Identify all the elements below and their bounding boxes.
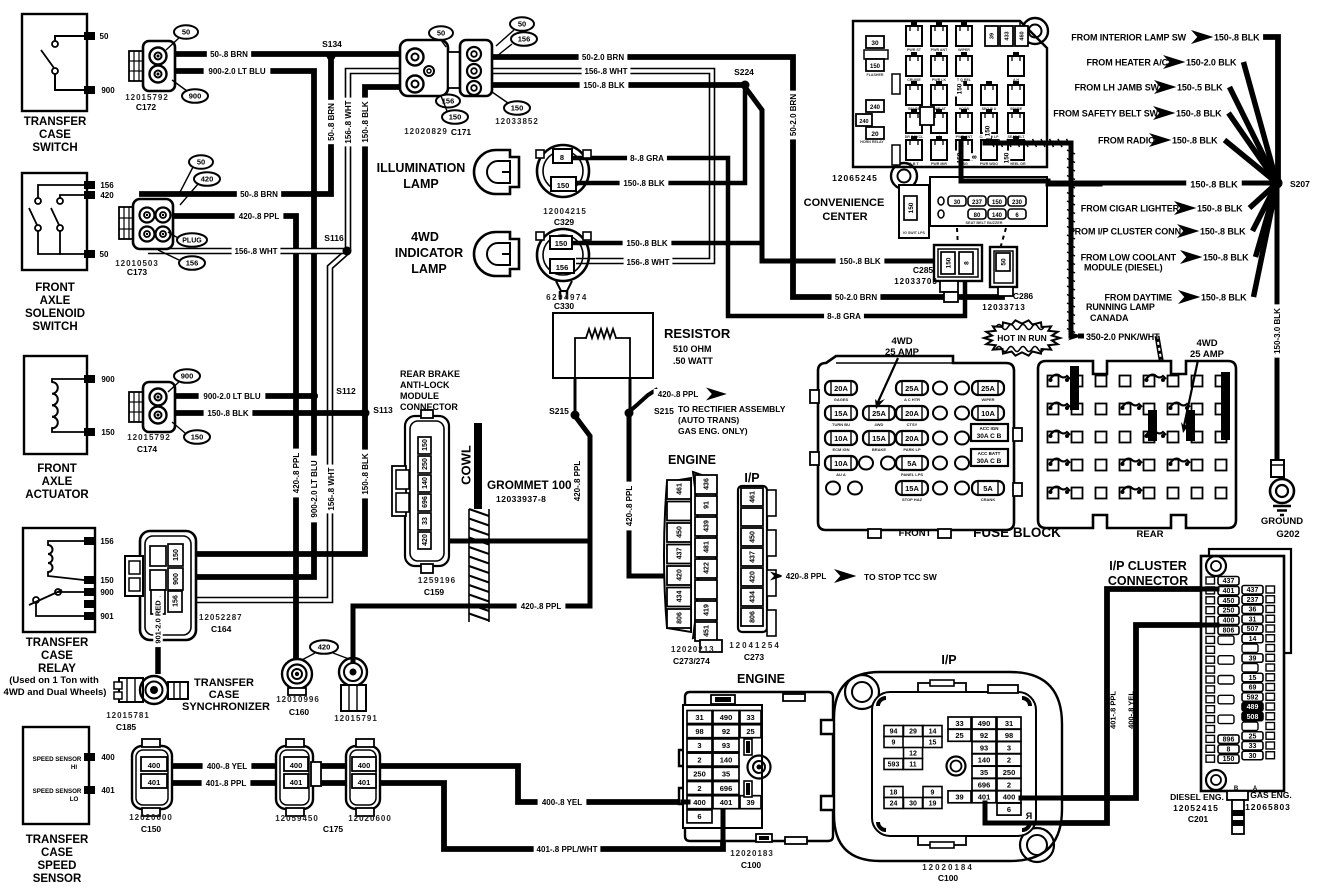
svg-text:24: 24 <box>890 801 898 808</box>
svg-text:156: 156 <box>556 263 569 272</box>
svg-text:150: 150 <box>557 181 570 190</box>
svg-text:4WD: 4WD <box>411 230 439 244</box>
svg-text:33: 33 <box>955 719 963 728</box>
svg-text:ENGINE: ENGINE <box>737 672 785 686</box>
svg-text:696: 696 <box>720 784 733 793</box>
svg-text:FROM I/P CLUSTER CONN: FROM I/P CLUSTER CONN <box>1069 227 1181 237</box>
svg-text:150: 150 <box>870 64 881 70</box>
svg-text:COWL: COWL <box>459 445 474 485</box>
svg-text:156-.8 WHT: 156-.8 WHT <box>584 67 627 76</box>
svg-text:PLUG: PLUG <box>182 238 202 245</box>
svg-text:401-.8 PPL: 401-.8 PPL <box>1109 691 1118 729</box>
svg-text:696: 696 <box>978 780 991 789</box>
svg-text:AXLE: AXLE <box>42 476 73 488</box>
svg-text:29: 29 <box>909 729 917 736</box>
svg-text:15A: 15A <box>834 409 848 418</box>
svg-text:9: 9 <box>931 790 935 797</box>
svg-text:400-.8 YEL: 400-.8 YEL <box>1127 691 1136 729</box>
svg-text:420: 420 <box>201 175 214 184</box>
svg-text:92: 92 <box>980 731 988 740</box>
svg-text:150: 150 <box>908 202 915 213</box>
svg-text:S215: S215 <box>549 406 569 416</box>
svg-text:481: 481 <box>704 541 711 553</box>
svg-text:MODULE: MODULE <box>400 391 439 401</box>
svg-text:140: 140 <box>422 477 429 489</box>
svg-text:TRANSFER: TRANSFER <box>26 834 89 846</box>
svg-text:25: 25 <box>955 731 963 740</box>
svg-text:S224: S224 <box>734 67 754 77</box>
svg-text:460: 460 <box>1019 31 1025 40</box>
svg-text:12010996: 12010996 <box>276 695 320 704</box>
svg-text:I/P: I/P <box>744 471 759 485</box>
svg-text:12052287: 12052287 <box>199 613 243 622</box>
svg-text:C285: C285 <box>913 265 934 275</box>
svg-text:420: 420 <box>677 569 684 581</box>
svg-text:30: 30 <box>954 200 961 206</box>
svg-text:PWR MIR: PWR MIR <box>931 162 947 166</box>
svg-text:25: 25 <box>1249 733 1257 740</box>
svg-text:FROM RADIO: FROM RADIO <box>1098 136 1155 146</box>
svg-text:50-2.0 BRN: 50-2.0 BRN <box>835 293 877 302</box>
svg-text:HOT IN RUN: HOT IN RUN <box>997 333 1047 343</box>
svg-text:PWR WDO: PWR WDO <box>980 162 998 166</box>
svg-text:18: 18 <box>890 790 898 797</box>
svg-text:420-.8 PPL: 420-.8 PPL <box>521 602 562 611</box>
svg-text:31: 31 <box>1249 616 1257 623</box>
svg-text:150-.8 BLK: 150-.8 BLK <box>1190 179 1238 189</box>
svg-text:156: 156 <box>173 595 180 607</box>
svg-text:250: 250 <box>693 770 706 779</box>
svg-text:150-2.0 BLK: 150-2.0 BLK <box>1186 58 1237 68</box>
svg-text:8-.8 GRA: 8-.8 GRA <box>827 312 861 321</box>
svg-text:508: 508 <box>1247 714 1259 721</box>
svg-text:C329: C329 <box>554 217 575 227</box>
svg-text:91: 91 <box>704 501 711 509</box>
svg-text:TRANSFER: TRANSFER <box>194 677 254 689</box>
svg-text:DIESEL ENG.: DIESEL ENG. <box>1170 792 1224 802</box>
svg-text:50-2.0 BRN: 50-2.0 BRN <box>789 94 798 136</box>
svg-text:C172: C172 <box>136 102 157 112</box>
svg-text:S215: S215 <box>654 406 674 416</box>
svg-text:150-.8 BLK: 150-.8 BLK <box>583 81 625 90</box>
svg-text:420-.8 PPL: 420-.8 PPL <box>573 461 582 502</box>
svg-text:400: 400 <box>290 761 303 770</box>
svg-text:3: 3 <box>1007 743 1011 752</box>
svg-text:9: 9 <box>892 740 896 747</box>
svg-text:437: 437 <box>1223 578 1235 585</box>
svg-text:12041254: 12041254 <box>729 641 781 650</box>
svg-text:39: 39 <box>1249 655 1257 662</box>
svg-text:140: 140 <box>720 755 733 764</box>
svg-text:156-.8 WHT: 156-.8 WHT <box>327 467 336 510</box>
svg-text:CASE: CASE <box>41 847 73 859</box>
svg-text:507: 507 <box>1247 626 1259 633</box>
svg-text:806: 806 <box>750 611 757 623</box>
svg-text:15: 15 <box>1249 675 1257 682</box>
svg-text:439: 439 <box>704 520 711 532</box>
svg-text:A C HTR: A C HTR <box>904 397 920 402</box>
svg-text:156: 156 <box>186 259 199 268</box>
svg-text:156: 156 <box>100 181 114 190</box>
svg-text:12020600: 12020600 <box>129 813 173 822</box>
svg-text:FROM CIGAR LIGHTER: FROM CIGAR LIGHTER <box>1081 204 1180 214</box>
svg-text:150: 150 <box>449 113 462 122</box>
svg-text:420-.8 PPL: 420-.8 PPL <box>239 212 280 221</box>
svg-text:Я: Я <box>1026 811 1032 821</box>
svg-text:12015781: 12015781 <box>106 711 150 720</box>
svg-text:450: 450 <box>1223 598 1235 605</box>
svg-text:HORN RELAY: HORN RELAY <box>860 140 884 144</box>
svg-text:CONNECTOR: CONNECTOR <box>1108 574 1188 588</box>
svg-text:420-.8 PPL: 420-.8 PPL <box>292 453 301 494</box>
svg-text:4WD: 4WD <box>1196 338 1217 349</box>
svg-text:ACC BATT: ACC BATT <box>978 451 1001 456</box>
svg-text:401: 401 <box>148 778 161 787</box>
svg-text:150-.8 BLK: 150-.8 BLK <box>1200 227 1246 237</box>
svg-text:25A: 25A <box>905 384 919 393</box>
svg-text:12033713: 12033713 <box>982 303 1026 312</box>
svg-text:INDICATOR: INDICATOR <box>395 246 463 260</box>
svg-text:451: 451 <box>704 625 711 637</box>
svg-text:C171: C171 <box>451 127 472 137</box>
svg-text:C273: C273 <box>744 652 765 662</box>
svg-text:4WD: 4WD <box>891 336 912 347</box>
svg-text:12065803: 12065803 <box>1245 802 1291 812</box>
svg-text:20: 20 <box>871 131 879 138</box>
svg-text:CRANK: CRANK <box>981 497 996 502</box>
svg-text:12020829: 12020829 <box>404 127 448 136</box>
svg-text:33: 33 <box>746 713 754 722</box>
svg-text:ANTI-LOCK: ANTI-LOCK <box>400 380 450 390</box>
svg-text:490: 490 <box>720 713 733 722</box>
svg-text:80: 80 <box>974 213 981 219</box>
svg-text:50: 50 <box>100 32 109 41</box>
svg-text:C273/274: C273/274 <box>673 656 710 666</box>
svg-text:50: 50 <box>100 250 109 259</box>
svg-text:SPEED: SPEED <box>38 860 77 872</box>
svg-text:19: 19 <box>929 801 937 808</box>
svg-text:RELAY: RELAY <box>38 663 76 675</box>
svg-text:400-.8 YEL: 400-.8 YEL <box>207 762 247 771</box>
svg-text:50: 50 <box>197 158 205 167</box>
svg-text:900-2.0 LT BLU: 900-2.0 LT BLU <box>208 67 265 76</box>
svg-text:50: 50 <box>518 20 526 29</box>
svg-text:900: 900 <box>181 372 194 381</box>
svg-text:250: 250 <box>422 458 429 470</box>
svg-text:150: 150 <box>555 239 568 248</box>
svg-text:401-.8 PPL: 401-.8 PPL <box>206 779 247 788</box>
svg-text:TO RECTIFIER ASSEMBLY: TO RECTIFIER ASSEMBLY <box>678 404 786 414</box>
svg-text:50-.8 BRN: 50-.8 BRN <box>327 103 336 141</box>
svg-text:420-.8 PPL: 420-.8 PPL <box>658 390 699 399</box>
svg-text:15: 15 <box>929 740 937 747</box>
svg-text:(AUTO TRANS): (AUTO TRANS) <box>678 415 739 425</box>
svg-text:150: 150 <box>992 200 1003 206</box>
svg-text:FLASHER: FLASHER <box>867 73 884 77</box>
svg-text:250: 250 <box>1003 768 1016 777</box>
svg-text:12020184: 12020184 <box>922 863 974 872</box>
svg-text:12015792: 12015792 <box>127 433 171 442</box>
svg-text:25A: 25A <box>872 409 886 418</box>
svg-text:150-.8 BLK: 150-.8 BLK <box>1172 136 1218 146</box>
svg-text:25 AMP: 25 AMP <box>885 347 920 358</box>
svg-text:PWR ANT: PWR ANT <box>931 48 948 52</box>
svg-text:FRONT: FRONT <box>899 528 932 539</box>
svg-text:GROUND: GROUND <box>1261 516 1303 527</box>
svg-text:GAS ENG. ONLY): GAS ENG. ONLY) <box>678 426 748 436</box>
svg-text:REAR: REAR <box>1137 529 1164 540</box>
svg-text:150-.8 BLK: 150-.8 BLK <box>623 179 665 188</box>
svg-text:401: 401 <box>720 798 733 807</box>
svg-text:6: 6 <box>697 812 701 821</box>
svg-text:150-.8 BLK: 150-.8 BLK <box>361 453 370 495</box>
svg-text:CASE: CASE <box>39 129 71 141</box>
svg-text:SPEED SENSOR: SPEED SENSOR <box>33 788 82 795</box>
svg-text:12052415: 12052415 <box>1173 803 1219 813</box>
svg-text:2: 2 <box>697 755 701 764</box>
svg-text:400: 400 <box>101 753 115 762</box>
svg-text:420: 420 <box>318 643 331 652</box>
svg-text:420-.8 PPL: 420-.8 PPL <box>786 572 827 581</box>
svg-text:12020600: 12020600 <box>348 814 392 823</box>
svg-text:SWITCH: SWITCH <box>32 142 77 154</box>
svg-text:11: 11 <box>909 762 917 769</box>
svg-text:AXLE: AXLE <box>40 295 71 307</box>
svg-text:30: 30 <box>871 40 879 47</box>
svg-text:461: 461 <box>677 483 684 495</box>
svg-text:93: 93 <box>722 741 730 750</box>
svg-text:C150: C150 <box>141 824 162 834</box>
svg-text:12059450: 12059450 <box>275 814 319 823</box>
svg-text:C201: C201 <box>1188 814 1209 824</box>
svg-text:400: 400 <box>358 761 371 770</box>
svg-text:450: 450 <box>750 531 757 543</box>
svg-text:15A: 15A <box>905 484 919 493</box>
svg-text:A B T: A B T <box>909 162 919 166</box>
svg-text:FRONT: FRONT <box>35 282 75 294</box>
svg-text:30: 30 <box>909 801 917 808</box>
svg-text:5A: 5A <box>907 459 917 468</box>
svg-text:420: 420 <box>100 191 114 200</box>
svg-text:IG SWIT LPS: IG SWIT LPS <box>903 231 925 235</box>
svg-text:150-3.0 BLK: 150-3.0 BLK <box>1273 308 1282 354</box>
svg-text:C185: C185 <box>116 722 137 732</box>
svg-text:240: 240 <box>859 119 868 125</box>
svg-text:25: 25 <box>746 727 754 736</box>
svg-text:31: 31 <box>1005 719 1013 728</box>
svg-text:ACC IGN: ACC IGN <box>980 426 999 431</box>
svg-text:240: 240 <box>870 105 881 111</box>
svg-text:35: 35 <box>722 770 730 779</box>
svg-text:8: 8 <box>963 261 970 265</box>
svg-text:LAMP: LAMP <box>411 262 446 276</box>
svg-text:SWITCH: SWITCH <box>32 321 77 333</box>
svg-text:TO STOP TCC SW: TO STOP TCC SW <box>864 572 938 582</box>
svg-text:93: 93 <box>980 743 988 752</box>
svg-text:FROM DAYTIME: FROM DAYTIME <box>1105 293 1173 303</box>
svg-text:237: 237 <box>1247 597 1259 604</box>
svg-text:20A: 20A <box>905 409 919 418</box>
svg-text:901-2.0 RED: 901-2.0 RED <box>154 600 163 644</box>
svg-text:437: 437 <box>677 548 684 560</box>
svg-text:250: 250 <box>1223 608 1235 615</box>
svg-text:ILLUMINATION: ILLUMINATION <box>377 161 466 175</box>
svg-text:FROM SAFETY BELT SW: FROM SAFETY BELT SW <box>1053 109 1158 119</box>
svg-text:C100: C100 <box>938 873 959 883</box>
svg-text:12020213: 12020213 <box>671 645 715 654</box>
svg-text:1259196: 1259196 <box>418 576 456 585</box>
svg-text:140: 140 <box>992 213 1003 219</box>
svg-text:I/P CLUSTER: I/P CLUSTER <box>1109 559 1187 573</box>
svg-text:420: 420 <box>422 534 429 546</box>
svg-text:436: 436 <box>704 478 711 490</box>
svg-text:2: 2 <box>697 784 701 793</box>
svg-text:901: 901 <box>100 612 114 621</box>
svg-text:FROM LH JAMB SW: FROM LH JAMB SW <box>1075 83 1160 93</box>
svg-text:STOP HAZ: STOP HAZ <box>902 497 923 502</box>
svg-text:461: 461 <box>750 491 757 503</box>
svg-text:400-.8 YEL: 400-.8 YEL <box>542 798 582 807</box>
svg-text:I/P: I/P <box>941 653 956 667</box>
svg-text:237: 237 <box>972 200 983 206</box>
svg-text:FRONT: FRONT <box>37 463 77 475</box>
svg-text:30A C B: 30A C B <box>977 458 1002 465</box>
svg-text:REAR BRAKE: REAR BRAKE <box>400 369 460 379</box>
svg-text:GAGES: GAGES <box>834 397 849 402</box>
svg-text:150-.8 BLK: 150-.8 BLK <box>1201 293 1247 303</box>
svg-text:150: 150 <box>984 125 991 136</box>
svg-text:94: 94 <box>890 729 898 736</box>
svg-text:156: 156 <box>100 537 114 546</box>
svg-text:8: 8 <box>1227 746 1231 753</box>
svg-text:12015792: 12015792 <box>125 93 169 102</box>
svg-text:450: 450 <box>677 526 684 538</box>
svg-text:FROM LOW COOLANT: FROM LOW COOLANT <box>1081 253 1177 263</box>
svg-text:SOLENOID: SOLENOID <box>25 308 85 320</box>
svg-text:CENTER: CENTER <box>822 211 867 223</box>
svg-text:AU A: AU A <box>836 472 846 477</box>
svg-text:489: 489 <box>1247 704 1259 711</box>
svg-text:PARK LP: PARK LP <box>903 447 921 452</box>
svg-text:4WD and Dual Wheels): 4WD and Dual Wheels) <box>4 687 107 698</box>
svg-text:ENGINE: ENGINE <box>668 453 716 467</box>
svg-text:230: 230 <box>1012 200 1023 206</box>
svg-text:806: 806 <box>677 612 684 624</box>
svg-text:ECM IGN: ECM IGN <box>832 447 849 452</box>
svg-text:401: 401 <box>1223 588 1235 595</box>
svg-text:10A: 10A <box>834 434 848 443</box>
svg-text:4WD: 4WD <box>875 422 884 427</box>
svg-text:30: 30 <box>1249 753 1257 760</box>
svg-text:900: 900 <box>189 92 202 101</box>
svg-text:8: 8 <box>560 153 564 162</box>
svg-text:12033852: 12033852 <box>495 117 539 126</box>
svg-text:900-2.0 LT BLU: 900-2.0 LT BLU <box>203 392 260 401</box>
svg-text:CASE: CASE <box>209 689 240 701</box>
svg-text:150: 150 <box>100 576 114 585</box>
svg-text:900: 900 <box>173 573 180 585</box>
svg-text:LAMP: LAMP <box>403 177 438 191</box>
svg-text:C286: C286 <box>1013 291 1034 301</box>
svg-text:GAS ENG.: GAS ENG. <box>1250 790 1292 800</box>
svg-text:150-.5 BLK: 150-.5 BLK <box>1177 83 1223 93</box>
svg-text:401: 401 <box>101 786 115 795</box>
svg-text:50: 50 <box>437 29 445 38</box>
svg-text:69: 69 <box>1249 685 1257 692</box>
svg-text:350-2.0 PNK/WHT: 350-2.0 PNK/WHT <box>1086 332 1160 342</box>
svg-text:S116: S116 <box>324 233 344 243</box>
svg-text:98: 98 <box>695 727 703 736</box>
svg-text:98: 98 <box>1005 731 1013 740</box>
svg-text:156-.8 WHT: 156-.8 WHT <box>344 100 353 143</box>
svg-text:TURN BU: TURN BU <box>832 422 850 427</box>
svg-text:ACTUATOR: ACTUATOR <box>25 489 89 501</box>
svg-text:FROM HEATER A/C: FROM HEATER A/C <box>1087 58 1169 68</box>
svg-text:35: 35 <box>980 768 988 777</box>
svg-text:156-.8 WHT: 156-.8 WHT <box>626 258 669 267</box>
svg-text:490: 490 <box>978 719 991 728</box>
svg-text:3: 3 <box>697 741 701 750</box>
svg-text:150: 150 <box>945 257 952 268</box>
svg-text:S112: S112 <box>336 386 356 396</box>
svg-text:92: 92 <box>722 727 730 736</box>
svg-text:C159: C159 <box>424 587 445 597</box>
svg-text:25 AMP: 25 AMP <box>1190 349 1225 360</box>
svg-text:150: 150 <box>511 104 524 113</box>
svg-text:C174: C174 <box>137 444 158 454</box>
svg-text:2: 2 <box>1007 756 1011 765</box>
svg-text:CTSY: CTSY <box>907 422 918 427</box>
svg-text:156: 156 <box>518 35 531 44</box>
svg-text:150: 150 <box>173 549 180 561</box>
svg-text:PANEL LPS: PANEL LPS <box>901 472 923 477</box>
svg-text:437: 437 <box>750 551 757 563</box>
svg-text:S207: S207 <box>1290 179 1310 189</box>
svg-text:33: 33 <box>422 517 429 525</box>
svg-text:900: 900 <box>101 86 115 95</box>
svg-text:150-.8 BLK: 150-.8 BLK <box>1214 33 1260 43</box>
svg-text:400: 400 <box>1223 618 1235 625</box>
svg-text:150-.8 BLK: 150-.8 BLK <box>1197 204 1243 214</box>
svg-text:592: 592 <box>1247 694 1259 701</box>
svg-text:8-.8 GRA: 8-.8 GRA <box>630 154 664 163</box>
svg-text:.50 WATT: .50 WATT <box>673 356 713 366</box>
svg-text:C164: C164 <box>211 624 232 634</box>
svg-text:140: 140 <box>978 756 991 765</box>
svg-text:10A: 10A <box>834 459 848 468</box>
svg-text:TRANSFER: TRANSFER <box>24 116 87 128</box>
svg-text:50-2.0 BRN: 50-2.0 BRN <box>582 53 624 62</box>
svg-text:15A: 15A <box>872 434 886 443</box>
svg-text:HI: HI <box>71 764 77 771</box>
svg-text:419: 419 <box>704 604 711 616</box>
svg-text:RUNNING LAMP: RUNNING LAMP <box>1086 302 1155 312</box>
svg-text:GROMMET 100: GROMMET 100 <box>487 478 572 492</box>
svg-text:420: 420 <box>750 571 757 583</box>
svg-text:156-.8 WHT: 156-.8 WHT <box>234 247 277 256</box>
svg-text:CONNECTOR: CONNECTOR <box>400 402 458 412</box>
svg-text:896: 896 <box>1223 736 1235 743</box>
svg-text:MODULE (DIESEL): MODULE (DIESEL) <box>1084 263 1163 273</box>
svg-text:39: 39 <box>746 798 754 807</box>
svg-text:5A: 5A <box>983 484 993 493</box>
svg-text:FROM INTERIOR LAMP SW: FROM INTERIOR LAMP SW <box>1071 33 1186 43</box>
svg-text:150: 150 <box>1223 756 1235 763</box>
svg-text:20A: 20A <box>834 384 848 393</box>
svg-text:RESISTOR: RESISTOR <box>664 326 731 341</box>
svg-text:33: 33 <box>1249 743 1257 750</box>
svg-text:C175: C175 <box>323 824 344 834</box>
